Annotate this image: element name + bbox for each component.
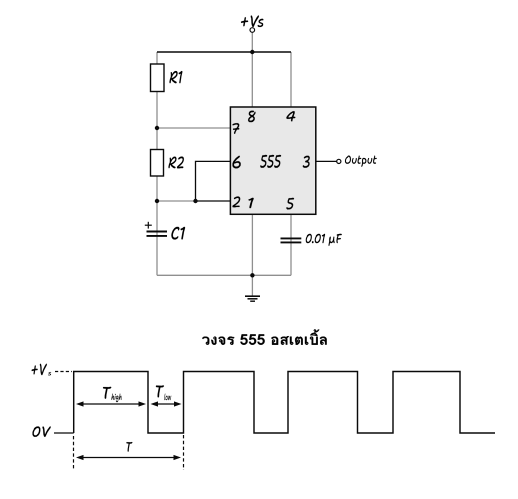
node junction xyxy=(155,199,159,203)
wire top rail xyxy=(157,51,291,53)
resistor R1 xyxy=(151,64,165,92)
capacitor 0.01uF xyxy=(281,237,302,239)
waveform 0V label xyxy=(33,426,51,436)
waveform dashed top left xyxy=(55,371,72,373)
dashed extension left xyxy=(73,436,75,470)
wire pin5 xyxy=(290,214,292,275)
label +Vs xyxy=(241,16,263,28)
waveform +Vs subscript s xyxy=(48,372,51,375)
pin 1 xyxy=(249,198,254,208)
arrow T period xyxy=(83,457,175,459)
label T xyxy=(126,442,132,452)
pin 6 xyxy=(233,156,241,169)
wire R2 bottom xyxy=(156,176,158,275)
label R2 xyxy=(169,157,184,169)
op IC 555 U1 xyxy=(230,107,315,214)
pin 4 xyxy=(286,111,295,121)
node junction xyxy=(250,273,254,277)
wire +Vs drop xyxy=(251,32,253,52)
ground xyxy=(245,295,260,297)
wire pin6 loop xyxy=(196,161,231,201)
wire ground stem xyxy=(251,275,253,296)
wire pin2 black segment xyxy=(196,200,231,202)
pin 5 xyxy=(286,198,294,210)
wire R1 top xyxy=(156,52,158,64)
node junction xyxy=(155,126,159,130)
pin 2 xyxy=(233,197,241,208)
label Output xyxy=(345,156,377,167)
wire pin1 xyxy=(251,214,253,275)
wire pin7 xyxy=(157,127,230,129)
terminal Output xyxy=(337,159,341,163)
dashed extension right xyxy=(183,435,185,470)
node junction xyxy=(250,50,254,54)
label T low xyxy=(156,385,164,397)
wire bottom rail xyxy=(157,274,291,276)
wire pin4 xyxy=(290,52,292,107)
label 555 xyxy=(260,155,281,168)
arrow T high xyxy=(83,403,140,405)
waveform 0V lead xyxy=(54,432,74,434)
wire pin8 xyxy=(251,52,253,107)
capacitor C1 xyxy=(147,231,168,233)
label C1 xyxy=(171,227,185,240)
wire node to pin2 gray segment xyxy=(157,200,196,202)
label R1 xyxy=(170,71,183,83)
pin 3 xyxy=(303,156,310,168)
node junction xyxy=(193,199,197,203)
terminal +Vs xyxy=(250,28,255,33)
label T high xyxy=(103,387,111,399)
pin 8 xyxy=(248,111,255,123)
waveform +Vs label xyxy=(32,364,47,375)
pin 7 xyxy=(233,123,240,134)
resistor R2 xyxy=(151,150,164,177)
label 0.01 uF xyxy=(306,234,342,246)
title Thai caption xyxy=(202,329,326,344)
wire pin3 output xyxy=(316,160,337,162)
waveform square wave xyxy=(74,372,495,434)
arrow T low xyxy=(157,403,175,405)
wire R1 bottom to node xyxy=(156,92,158,150)
